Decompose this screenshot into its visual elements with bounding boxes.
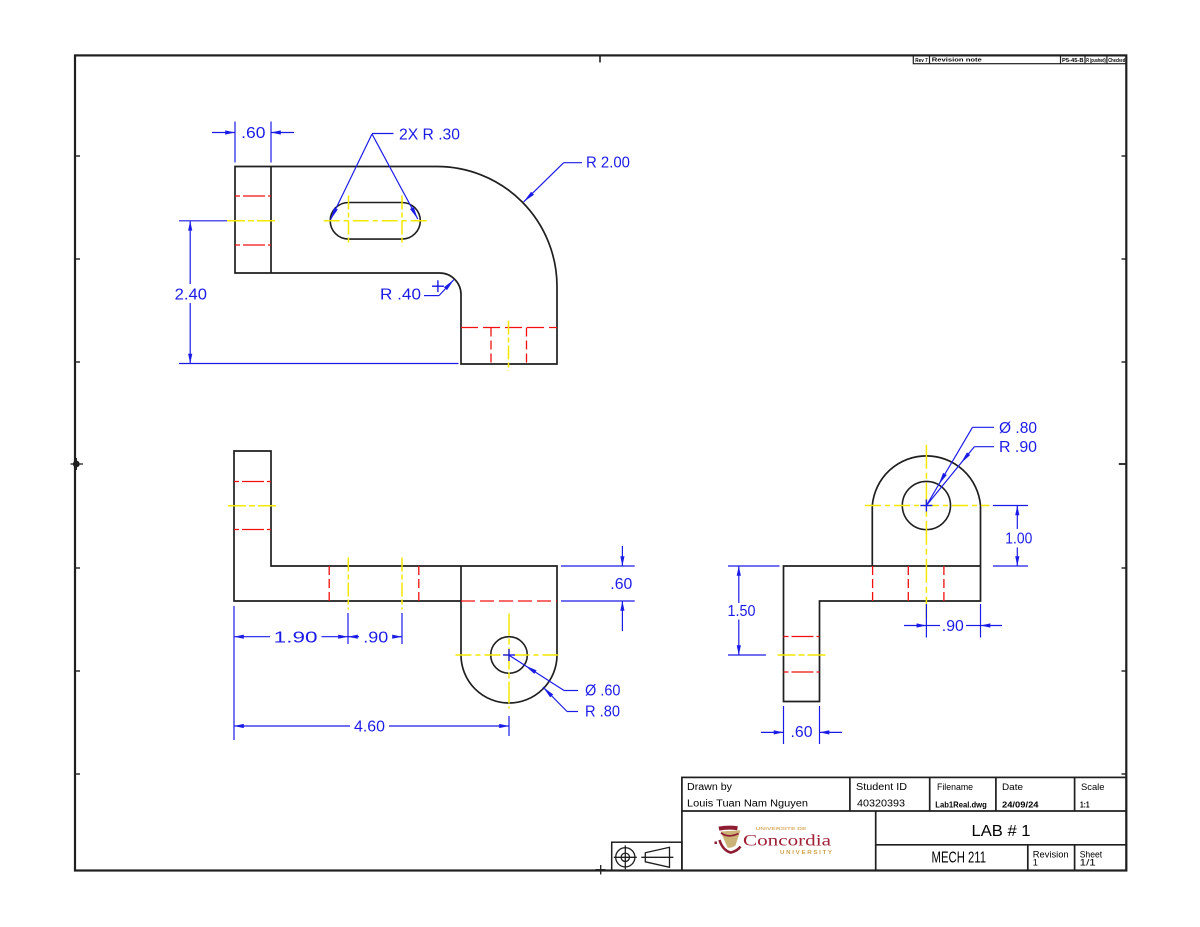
border centering tick top <box>599 55 601 62</box>
dimension 1.00: dimension line and arrows <box>1016 506 1018 530</box>
border centering mark bottom <box>596 865 606 875</box>
dimension .60 bottom: extension lines <box>783 706 785 744</box>
dimension 2.40: dimension line and arrows <box>189 221 191 284</box>
dimension 1.90: dimension line and arrows <box>234 636 270 638</box>
lower-left view hidden lines in upright bar (red) <box>234 481 271 483</box>
svg-text:R (pushed): R (pushed) <box>1086 58 1106 64</box>
top view bottom leg centerline (yellow) <box>508 321 510 372</box>
lower-left view outline with R.80 rounded tab <box>234 451 557 703</box>
top view hidden lines in left bar (red) <box>235 195 271 197</box>
svg-text:Scale: Scale <box>1081 782 1105 793</box>
label R .40 leader and arrow <box>424 295 439 297</box>
svg-text:Date: Date <box>1002 782 1023 793</box>
projection symbol truncated cone <box>641 847 673 867</box>
title block header texts <box>687 782 1105 793</box>
lower-left view hidden slot lines in flat bar (red) <box>328 566 330 601</box>
lower-left view slot centerlines (yellow) <box>347 558 349 610</box>
svg-text:1.50: 1.50 <box>728 603 756 620</box>
svg-text:1.90: 1.90 <box>274 629 318 646</box>
svg-text:Louis Tuan Nam Nguyen: Louis Tuan Nam Nguyen <box>687 799 808 810</box>
svg-text:Ø .60: Ø .60 <box>585 682 621 699</box>
svg-text:.60: .60 <box>241 125 265 142</box>
dimension 1.50: extension lines <box>728 565 780 567</box>
svg-text:U N I V E R S I T Y: U N I V E R S I T Y <box>780 850 832 856</box>
label D.80 leader and arrow <box>926 427 972 505</box>
svg-text:R .90: R .90 <box>999 439 1037 456</box>
right view hidden lines in leg (red) <box>784 636 820 638</box>
lower-left view tab left edge segment <box>460 566 462 601</box>
dimension .90: dimension line and arrows <box>348 636 359 638</box>
border tick marks left <box>75 156 80 774</box>
right view hidden lines in bar (red) <box>872 566 874 601</box>
dimension .90 right: leader tails, stubs and arrows <box>904 625 926 627</box>
svg-text:Ø .80: Ø .80 <box>999 420 1037 437</box>
dimension 4.60: dimension line and arrows <box>234 725 350 727</box>
svg-text:Filename: Filename <box>937 782 973 793</box>
label D.60 leader and arrow <box>510 656 565 691</box>
R2.00 arc center mark (blue plus) <box>432 285 444 287</box>
svg-text:.60: .60 <box>610 576 632 593</box>
svg-text:Concordia: Concordia <box>743 833 831 850</box>
projection symbol target circle <box>614 845 637 869</box>
top view hidden hole lines in bottom leg (red) <box>490 328 492 364</box>
top view hidden edge line y=327.5 (red) <box>461 327 557 329</box>
svg-text:1.00: 1.00 <box>1005 531 1032 548</box>
svg-text:R .80: R .80 <box>585 704 620 721</box>
label R 2.00 leader and arrow <box>524 163 564 202</box>
title block value texts <box>687 799 1090 810</box>
svg-text:1:1: 1:1 <box>1080 799 1090 809</box>
svg-text:.90: .90 <box>942 618 964 635</box>
svg-text:P5-45-B: P5-45-B <box>1062 58 1084 64</box>
sheet border frame <box>75 55 1126 870</box>
revision strip tiny text <box>915 58 1125 64</box>
svg-text:Drawn by: Drawn by <box>687 782 732 793</box>
svg-text:Rev 7: Rev 7 <box>915 58 928 64</box>
dimension 1.90: extension lines <box>233 606 235 740</box>
svg-text:UNIVERSITE DE: UNIVERSITE DE <box>756 826 808 832</box>
svg-text:Revision: Revision <box>1033 849 1069 859</box>
right view lug center mark (blue plus) <box>920 505 932 507</box>
svg-text:2X R .30: 2X R .30 <box>399 127 460 144</box>
top view slot obround 2X R.30 <box>330 203 420 240</box>
dimension 1.00: extension lines <box>993 505 1028 507</box>
svg-text:MECH 211: MECH 211 <box>932 850 987 867</box>
svg-text:LAB # 1: LAB # 1 <box>972 823 1031 840</box>
svg-text:4.60: 4.60 <box>354 719 385 736</box>
svg-text:Lab1Real.dwg: Lab1Real.dwg <box>935 799 987 809</box>
dimension 1.50: dimension line and arrows <box>738 566 740 603</box>
lower-left view hidden edge across tab (red) <box>461 600 557 602</box>
label R.80 leader and arrow <box>543 687 567 712</box>
lower-left view hole centerlines (yellow) <box>508 614 510 709</box>
right view lug centerlines (yellow) <box>925 445 927 619</box>
Concordia logo shield <box>715 826 741 853</box>
svg-text:1: 1 <box>1033 858 1038 868</box>
top view outline with R2.00 corner and R.40 fillet <box>235 167 557 365</box>
dimension 2.40: extension lines <box>179 220 227 222</box>
title block outer box and grid <box>682 777 1126 870</box>
svg-text:Student ID: Student ID <box>856 782 907 793</box>
svg-text:R 2.00: R 2.00 <box>586 155 630 172</box>
svg-text:R .40: R .40 <box>380 287 421 304</box>
right view bar top edge under lug <box>872 565 980 567</box>
right view outline with R.90 lug <box>784 456 981 702</box>
top view inner edge line x=271 <box>270 167 272 273</box>
dimension .60 bottom: leader tails and arrows <box>761 731 784 733</box>
svg-text:Revision note: Revision note <box>932 58 983 64</box>
dimension 4.60: extension line at hole center <box>508 716 510 736</box>
svg-text:.90: .90 <box>363 629 388 646</box>
top view centerline across left bar (yellow) <box>227 220 278 222</box>
border tick marks right <box>1119 156 1127 774</box>
lower-left view hole circle D.60 <box>491 637 528 674</box>
svg-text:1/1: 1/1 <box>1080 858 1096 868</box>
dimension .60 right: leader tails and arrows <box>621 546 623 566</box>
title block Revision cell texts <box>1033 849 1103 867</box>
dimension .90 right: extension lines <box>925 604 927 638</box>
right view leg centerline (yellow) <box>778 654 828 656</box>
label R.90 leader and arrow <box>926 447 974 506</box>
svg-text:40320393: 40320393 <box>857 799 905 810</box>
lower-left view centerline across upright bar (yellow) <box>228 505 278 507</box>
third angle projection symbol box <box>612 842 682 870</box>
dimension .60 top: leader tails and arrows <box>212 132 235 134</box>
label 2X R.30 leader lines and arrows <box>331 134 373 220</box>
svg-text:24/09/24: 24/09/24 <box>1002 799 1039 809</box>
border centering mark left <box>71 458 84 470</box>
dimension .60 top: extension lines <box>234 122 236 163</box>
svg-text:Checked: Checked <box>1108 58 1125 64</box>
revision strip box <box>913 55 1126 63</box>
top view slot centerlines (yellow) <box>348 196 350 246</box>
svg-text:2.40: 2.40 <box>175 286 207 303</box>
dimension .60 right: extension lines <box>561 565 635 567</box>
lower-left view hole center mark (blue plus) <box>503 654 515 656</box>
svg-text:.60: .60 <box>791 724 813 741</box>
right view lug hole circle D.80 <box>902 481 950 529</box>
